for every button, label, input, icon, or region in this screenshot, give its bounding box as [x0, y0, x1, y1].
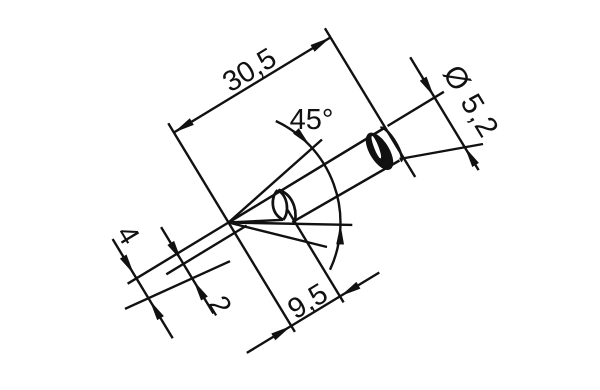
- tip body top silhouette edge: [229, 128, 386, 223]
- 45-deg arc lower arrowhead: [336, 225, 344, 245]
- 4 lower arrowhead: [150, 300, 164, 320]
- bevel face lower edge from tip to lens bottom: [229, 220, 284, 223]
- 4-dim lower extension line: [125, 261, 230, 309]
- shaft end cap arc: [380, 125, 405, 161]
- 4 dimension line: [113, 239, 173, 338]
- lower bevel edge line from tip: [229, 223, 328, 248]
- bevel face lens left arc: [273, 190, 283, 220]
- diameter upper extension line: [388, 92, 444, 126]
- extension line through tip point: [168, 123, 295, 332]
- 4 upper arrowhead: [120, 255, 134, 275]
- 30,5 dimension line: [174, 37, 331, 132]
- collar ring: [360, 128, 399, 174]
- svg-text:45°: 45°: [290, 104, 334, 136]
- 30,5 left arrowhead: [174, 118, 194, 132]
- dia upper arrowhead: [420, 77, 434, 97]
- tip body bottom silhouette edge: [292, 161, 399, 223]
- 2-dim lower extension line: [166, 226, 246, 275]
- diameter lower extension line: [400, 144, 484, 159]
- 2 dimension line: [161, 227, 213, 313]
- 30,5 right arrowhead: [311, 37, 331, 51]
- 9,5 dimension line: [247, 273, 379, 353]
- extension line through shaft end: [325, 28, 415, 177]
- dia lower arrowhead: [465, 147, 479, 167]
- 2 upper arrowhead: [167, 241, 181, 261]
- 2 lower arrowhead: [194, 281, 208, 301]
- horizontal reference line from tip: [229, 223, 353, 225]
- extension line of top edge toward 4-dim: [128, 223, 229, 284]
- 45 degree dimension arc: [276, 121, 341, 270]
- extension line through bevel step: [288, 210, 344, 302]
- bevel step outer arc: [279, 190, 296, 224]
- bevel face lens right arc: [278, 190, 288, 220]
- bevel edge line / 45-deg leg from tip: [229, 140, 323, 223]
- 9,5 left arrowhead: [271, 326, 291, 340]
- diameter 5,2 dimension line: [410, 57, 478, 170]
- 9,5 right arrowhead: [340, 282, 360, 296]
- 45-deg arc upper arrowhead: [293, 128, 310, 145]
